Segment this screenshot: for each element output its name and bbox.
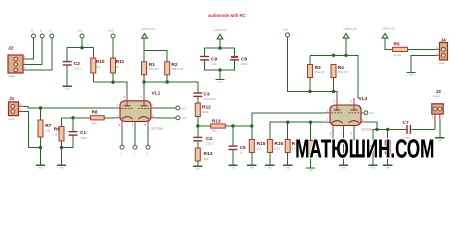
ground xyxy=(368,164,377,166)
junction xyxy=(308,90,311,93)
resistor R4 xyxy=(331,65,336,78)
wire C5 to ground xyxy=(232,150,234,165)
svg-text:audionode with RC: audionode with RC xyxy=(208,13,246,19)
svg-text:0,01u: 0,01u xyxy=(206,142,214,146)
wire R18 top xyxy=(310,122,312,140)
ground xyxy=(36,164,45,166)
junction xyxy=(39,106,42,109)
pin bottom a xyxy=(120,145,124,149)
ground xyxy=(339,164,348,166)
svg-text:680: 680 xyxy=(92,121,97,125)
power +250V DC 2 xyxy=(217,34,223,39)
svg-text:GND: GND xyxy=(195,169,200,171)
wire supply to R1 xyxy=(143,38,145,62)
connector J1 xyxy=(9,102,19,116)
resistor R8 xyxy=(91,116,105,120)
capacitor C9 xyxy=(200,56,209,58)
wire J4 pin2 to ground xyxy=(411,55,436,72)
wire R12 to node xyxy=(197,117,199,127)
resistor R10 xyxy=(91,58,96,73)
svg-text:power: power xyxy=(439,62,446,65)
wire to C9 xyxy=(204,48,206,56)
pin j1 xyxy=(32,34,36,38)
resistor R14 xyxy=(195,148,200,161)
wire supply to rail xyxy=(345,38,347,55)
ground xyxy=(383,164,392,166)
wire pin9 to R11 xyxy=(112,38,114,58)
pin pin9 xyxy=(111,34,115,38)
svg-text:GND: GND xyxy=(65,89,70,91)
wire anode rail to C3 xyxy=(144,82,198,93)
ground xyxy=(406,72,415,74)
tube VL2 xyxy=(330,105,361,126)
resistor R16 xyxy=(267,140,272,153)
wire rail to tube pin 9 xyxy=(93,82,127,94)
svg-text:250k 3W: 250k 3W xyxy=(149,68,160,71)
resistor R19 xyxy=(385,141,390,154)
svg-text:2k: 2k xyxy=(116,65,120,69)
junction xyxy=(111,81,114,84)
wire VL1 grid2 to pin7 xyxy=(156,107,176,109)
junction xyxy=(309,121,312,124)
ground xyxy=(57,164,66,166)
wire R19 to ground xyxy=(387,154,389,166)
svg-text:120u: 120u xyxy=(80,136,87,140)
wire J1 lower to R7 bottom xyxy=(24,112,41,148)
svg-text:R5: R5 xyxy=(394,41,400,47)
pin pin5 xyxy=(286,33,290,37)
resistor R1 xyxy=(142,62,147,75)
svg-text:10k: 10k xyxy=(45,129,50,133)
junction xyxy=(166,80,169,83)
power +250V DC 1 xyxy=(142,34,148,39)
junction xyxy=(332,54,335,57)
wire R16 to ground xyxy=(269,153,271,166)
wire R11 bottom xyxy=(112,73,114,82)
svg-text:2k 2w: 2k 2w xyxy=(393,53,402,57)
svg-text:C3: C3 xyxy=(204,92,210,98)
wire VL2 bottom pin a xyxy=(332,130,334,141)
wire VL2 bottom pin b to ground xyxy=(343,130,345,165)
wire anode rail VL2 xyxy=(310,55,358,98)
junction xyxy=(71,116,74,119)
resistor R11 xyxy=(111,58,116,73)
ground xyxy=(63,85,72,87)
connector J3 xyxy=(432,104,443,114)
svg-text:6DT2WA: 6DT2WA xyxy=(152,127,163,131)
wire VL1 bottom pin b xyxy=(134,126,136,145)
capacitor C7 xyxy=(406,125,408,134)
wire cathode line xyxy=(62,117,115,119)
wire R7 to ground xyxy=(40,137,42,165)
wire R10 bottom xyxy=(92,73,94,82)
resistor R9 xyxy=(59,127,64,142)
svg-text:30k: 30k xyxy=(204,157,209,161)
pin j2 xyxy=(40,34,44,38)
junction xyxy=(218,68,221,71)
wire to ground xyxy=(219,70,221,79)
pin j3 xyxy=(50,34,54,38)
wire grid line J1 to VL1 xyxy=(24,106,115,108)
svg-text:R13: R13 xyxy=(212,119,221,125)
svg-text:J2: J2 xyxy=(8,46,14,52)
svg-text:1m: 1m xyxy=(257,147,262,151)
wire R15 to ground xyxy=(251,153,253,166)
svg-text:pin6: pin6 xyxy=(182,116,187,120)
svg-text:GND: GND xyxy=(218,82,223,84)
svg-text:GND: GND xyxy=(38,168,43,170)
svg-text:250k 4W: 250k 4W xyxy=(315,71,326,74)
wire R3 top xyxy=(309,55,311,64)
resistor R12 xyxy=(195,103,200,117)
ground xyxy=(247,164,256,166)
wire pin1 down xyxy=(81,38,83,48)
power +250V DC 3 xyxy=(343,34,349,39)
ground xyxy=(228,164,237,166)
wire R13 to grid node xyxy=(225,125,252,127)
wire VL1 cathode2 to pin6 xyxy=(156,117,176,119)
wire VL1 bottom pin a xyxy=(121,126,123,145)
svg-text:R3: R3 xyxy=(315,65,321,71)
svg-text:+250V DC: +250V DC xyxy=(343,27,358,31)
wire C9 bottom xyxy=(205,60,235,70)
svg-text:250k 4W: 250k 4W xyxy=(338,71,349,74)
svg-text:pin7: pin7 xyxy=(182,106,187,110)
svg-text:GND: GND xyxy=(437,140,442,142)
svg-text:GND: GND xyxy=(267,168,272,170)
wire R3 bottom xyxy=(309,78,311,92)
svg-text:R4: R4 xyxy=(338,65,344,71)
svg-text:GND: GND xyxy=(231,168,236,170)
wire j2 to J2 xyxy=(26,38,42,64)
ground xyxy=(283,164,292,166)
wire R17 top xyxy=(287,122,289,139)
wire R18 to ground xyxy=(310,154,312,168)
junction xyxy=(332,90,335,93)
capacitor C6 xyxy=(369,145,378,147)
pin bottom c xyxy=(146,145,150,149)
svg-text:10k: 10k xyxy=(96,65,101,69)
svg-text:GND: GND xyxy=(371,168,376,170)
svg-text:250k 0,5W: 250k 0,5W xyxy=(171,68,184,71)
wire VL2 bottom pin c xyxy=(353,130,355,141)
svg-text:pin2: pin2 xyxy=(369,112,374,115)
wire C2 to ground xyxy=(66,65,68,86)
resistor R5 xyxy=(393,47,408,51)
wire j1 to J2 xyxy=(26,38,34,59)
connector J4 xyxy=(440,43,448,61)
svg-text:R10: R10 xyxy=(96,59,105,65)
capacitor C4 xyxy=(193,136,202,138)
junction xyxy=(386,128,389,131)
wire grid riser to VL2 xyxy=(252,113,325,126)
junction xyxy=(39,146,42,149)
svg-text:R11: R11 xyxy=(116,59,125,65)
wire C2-R10 branch xyxy=(67,47,93,49)
svg-text:+250V DC: +250V DC xyxy=(141,27,156,31)
svg-text:GND: GND xyxy=(59,168,64,170)
wire R9 to ground xyxy=(61,141,63,165)
pin pin2 xyxy=(364,111,368,115)
pin bottom b xyxy=(133,145,137,149)
resistor R13 xyxy=(211,124,226,128)
svg-text:+250V DC: +250V DC xyxy=(382,27,397,31)
ground xyxy=(306,167,315,169)
wire output line xyxy=(373,128,406,130)
resistor R3 xyxy=(308,65,313,78)
wire rail to R2 xyxy=(144,51,167,62)
ground xyxy=(265,164,274,166)
svg-text:output: output xyxy=(433,95,440,98)
wire cathode bus VL2 xyxy=(270,122,325,139)
wire to R10 xyxy=(92,48,94,58)
svg-text:R1: R1 xyxy=(149,62,155,68)
wire C5 drop xyxy=(232,126,234,146)
svg-text:GND: GND xyxy=(308,170,313,172)
wire R5 to J4 xyxy=(408,48,436,50)
svg-text:GND: GND xyxy=(285,168,290,170)
resistor R15 xyxy=(249,140,254,153)
svg-text:100u: 100u xyxy=(241,62,248,66)
svg-text:4,3u: 4,3u xyxy=(211,62,217,66)
wire VL1 bottom pin c xyxy=(147,126,149,145)
resistor R2 xyxy=(165,62,170,75)
connector J2 xyxy=(8,55,23,73)
junction xyxy=(218,46,221,49)
wire VL2 grid2 pin xyxy=(361,112,364,114)
wire C1 bottom xyxy=(62,135,74,147)
wire to C8 xyxy=(234,48,236,56)
wire J3 to ground xyxy=(439,119,441,138)
junction xyxy=(231,124,234,127)
wire R19 top xyxy=(387,129,389,140)
wire R7 top xyxy=(40,108,42,120)
wire R17 to ground xyxy=(287,153,289,166)
svg-text:GND: GND xyxy=(385,168,390,170)
power +250V DC 4 xyxy=(382,34,388,39)
svg-text:pin5: pin5 xyxy=(283,28,288,32)
junction grid node xyxy=(250,124,253,127)
svg-text:heater: heater xyxy=(8,74,15,78)
svg-text:0,5mu*630v: 0,5mu*630v xyxy=(204,99,217,101)
wire node to R13 xyxy=(198,125,211,127)
svg-text:+250V DC: +250V DC xyxy=(214,28,229,32)
junction xyxy=(344,54,347,57)
wire to C2 xyxy=(66,48,68,62)
resistor R18 xyxy=(308,141,313,154)
capacitor C5 xyxy=(229,145,238,147)
svg-text:VL2: VL2 xyxy=(359,96,368,102)
wire supply to R5 xyxy=(385,38,393,49)
wire R14 to ground xyxy=(197,161,199,166)
svg-text:input: input xyxy=(9,117,15,121)
wire VL2 cathode follower out xyxy=(366,122,377,129)
capacitor C8 xyxy=(231,56,238,58)
svg-text:2k: 2k xyxy=(54,132,58,136)
pin pin7 xyxy=(176,106,180,110)
wire supply stem xyxy=(219,39,221,48)
junction xyxy=(196,124,199,127)
svg-text:6DT2WA: 6DT2WA xyxy=(362,128,373,132)
wire C4 top xyxy=(197,126,199,137)
svg-text:1u: 1u xyxy=(240,151,244,155)
wire C3 to R12 xyxy=(197,97,199,103)
capacitor C3 xyxy=(193,92,202,94)
svg-text:R2: R2 xyxy=(171,62,177,68)
svg-text:VL1: VL1 xyxy=(152,90,161,96)
svg-text:GND: GND xyxy=(341,168,346,170)
svg-text:GND: GND xyxy=(409,75,414,77)
wire R9 top xyxy=(61,118,63,127)
svg-text:R8: R8 xyxy=(92,110,98,116)
svg-text:pin9: pin9 xyxy=(109,29,114,33)
wire C6 top xyxy=(372,129,374,145)
svg-text:МАТЮШИН.СОМ: МАТЮШИН.СОМ xyxy=(295,135,434,163)
wire C6 to ground xyxy=(372,150,374,166)
capacitor C2 xyxy=(63,61,72,63)
tube VL1 xyxy=(120,101,151,122)
junction xyxy=(80,46,83,49)
junction xyxy=(142,80,145,83)
svg-text:J4: J4 xyxy=(441,38,447,44)
svg-text:GND: GND xyxy=(249,168,254,170)
wire j3 to J2 xyxy=(26,38,52,70)
svg-text:C7: C7 xyxy=(403,120,409,126)
ground xyxy=(215,79,224,81)
ground xyxy=(193,165,202,167)
wire C1 top xyxy=(72,118,74,132)
wire pin5 down to rail xyxy=(288,37,338,98)
svg-text:6,1k: 6,1k xyxy=(274,147,280,151)
junction xyxy=(375,128,378,131)
resistor R17 xyxy=(285,140,290,153)
ground xyxy=(435,137,444,139)
resistor R7 xyxy=(38,120,43,137)
wire R15 top xyxy=(251,126,253,140)
wire R1 to anode xyxy=(143,75,145,95)
svg-text:pin1: pin1 xyxy=(78,29,83,33)
pin pin1 xyxy=(80,34,84,38)
svg-text:30k: 30k xyxy=(212,128,217,132)
svg-text:300k: 300k xyxy=(202,110,209,114)
wire filter rail xyxy=(205,47,235,49)
wire to J3 xyxy=(434,119,436,129)
junction xyxy=(60,146,63,149)
wire C4 to R14 xyxy=(197,141,199,148)
svg-text:J1: J1 xyxy=(9,96,15,102)
svg-text:0,01u: 0,01u xyxy=(74,67,82,71)
pin pin6 xyxy=(176,116,180,120)
capacitor C1 xyxy=(69,131,78,133)
wire R4 bottom xyxy=(333,78,335,92)
wire R2 bottom xyxy=(166,75,168,82)
junction xyxy=(286,121,289,124)
